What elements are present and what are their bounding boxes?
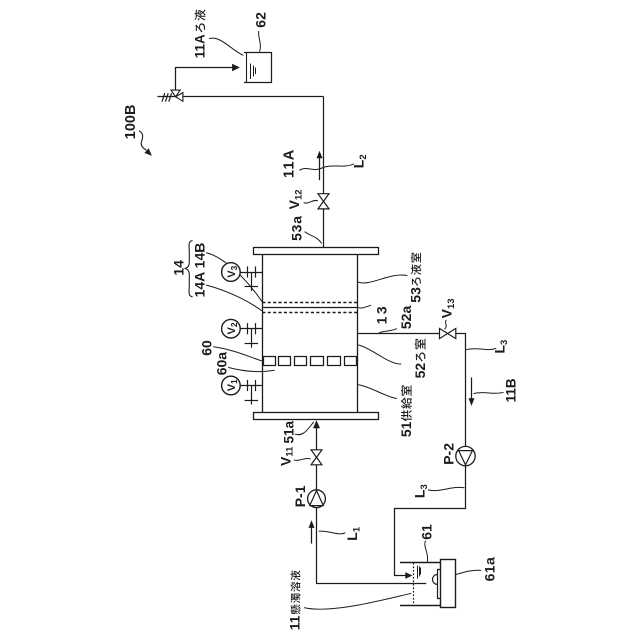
leader 53a [305,232,322,244]
leader 62 [259,31,261,52]
vent open arrow down-pointing [171,90,180,97]
label L3 upper [491,340,509,354]
leader 11A to L2 wavy [299,164,354,170]
leader 61 [425,541,428,562]
label 100B [123,105,139,140]
wire feed riser [316,428,318,450]
tank 61 top wall [400,562,440,564]
filter 13 solid line [262,307,357,309]
leader V12 [304,200,318,203]
label V11 [277,446,295,466]
leader V13 [445,320,447,329]
label L2 [350,154,368,168]
gas vent valve V3 assembly [222,263,263,291]
leader 52a [379,329,397,333]
stirrer 61a arc [433,574,438,584]
arrow L3 into tank 61 [405,572,412,579]
svg-text:61a: 61a [482,557,498,582]
label 51a [281,420,296,443]
vent hatch marks [162,93,172,102]
pump P-2 [456,446,475,466]
svg-text:52: 52 [412,363,428,379]
gas vent valve V2 assembly [222,319,263,347]
valve V13 [440,328,456,338]
label 11 suspension [287,570,303,630]
pump P-1 [308,490,326,508]
stirrer unit 61a outer box [441,560,456,608]
leader 11B [473,392,503,393]
gas vent valve V1 assembly [222,376,263,404]
label V13 [439,298,457,318]
svg-text:53a: 53a [289,215,305,241]
label 11A filtrate [193,9,208,58]
beaker 62 liquid shading marks [251,64,256,80]
valve V11 [311,450,322,465]
label L1 [344,526,362,541]
filter 13 lower dashed line [262,312,357,314]
svg-text:14: 14 [170,260,186,276]
label 53a [289,215,305,241]
wire L2 horizontal run [176,96,324,98]
beaker 62 outline (open left) [244,53,272,83]
wire L3 down and across [395,466,466,576]
vent open arrow left-pointing [176,93,183,102]
leader V11 [294,458,311,460]
wire valve to pump [316,465,318,490]
beaker 62 liquid level line [246,53,248,83]
label V12 [286,189,304,209]
arrow into beaker 62 [232,64,240,71]
label 51 supply chamber [398,385,414,437]
label P-1 [292,485,308,507]
leader L3 upper [466,348,496,349]
flow arrow 11A [317,151,323,181]
svg-text:11A: 11A [193,34,208,58]
svg-text:51a: 51a [281,420,296,443]
svg-text:60a: 60a [214,352,230,376]
label 14A 14B [191,243,207,298]
valve V12 [318,194,329,209]
label 61a [482,557,498,582]
vessel right wall [357,255,359,413]
svg-text:11B: 11B [503,378,518,402]
svg-text:51: 51 [398,421,414,437]
vessel bottom flange 51a plate [254,413,379,420]
wire L2 riser lower segment [323,209,325,249]
label 11A [282,149,298,178]
leader 61a [456,570,481,574]
leader 60 [213,347,262,361]
svg-text:52a: 52a [398,306,414,330]
stirrer 61a bracket [438,570,441,599]
wire 52a outlet [358,333,440,335]
svg-text:11A: 11A [282,149,298,178]
label 60 [199,340,215,356]
svg-text:53: 53 [407,287,423,303]
label 11B [503,378,518,402]
wire L2 riser upper segment [323,97,325,194]
vessel top flange 53a plate [254,248,379,255]
electrode row 60 squares 60a [264,357,357,366]
label 13 [373,304,389,325]
svg-text:14A 14B: 14A 14B [191,243,207,298]
label 53 filtrate chamber [407,253,423,303]
leader L3 lower [428,487,465,490]
tank 61 liquid shading marks [418,566,421,579]
label 52a [398,306,414,330]
leader L1 [319,531,346,534]
svg-text:11: 11 [287,615,303,630]
label L3 lower [412,484,430,498]
wire pump suction run [317,508,427,584]
flow arrow 11B [469,377,475,406]
arrow 100B [139,131,152,156]
tank 61 suspension level dashed [413,563,415,606]
tank 61 bottom wall [400,605,440,607]
leader 14B [206,253,262,302]
svg-text:60: 60 [199,340,215,356]
label 60a [214,352,230,376]
leader 13 [358,305,371,308]
leader 11A filtrate [209,38,243,55]
label 62 [252,12,268,28]
label P-2 [441,443,457,465]
svg-text:61: 61 [418,524,434,540]
svg-text:62: 62 [252,12,268,28]
wire L3 top corner [456,334,466,447]
svg-text:13: 13 [373,304,389,325]
leader 51a [295,422,314,435]
leader 60a [228,367,275,371]
leader 53 filtrate chamber [358,275,408,283]
wire branch to beaker 62 [176,68,234,91]
svg-text:P-1: P-1 [292,485,308,507]
leader 51 supply chamber [358,385,397,399]
leader 52 filter chamber [358,345,401,364]
label 61 [418,524,434,540]
svg-text:P-2: P-2 [441,443,457,465]
filter 13 upper dashed line [262,302,357,304]
leader 11 suspension [304,593,411,609]
label 52 filter chamber [412,339,428,379]
svg-text:100B: 100B [123,105,139,140]
vessel left wall [262,255,264,413]
brace 14 [185,241,192,297]
wire L2 vent line to atmosphere [158,96,176,98]
arrow into supply chamber 51a [313,420,320,428]
leader 14A [206,285,262,311]
flow arrow L1 [309,520,315,543]
label 14 [170,260,186,276]
